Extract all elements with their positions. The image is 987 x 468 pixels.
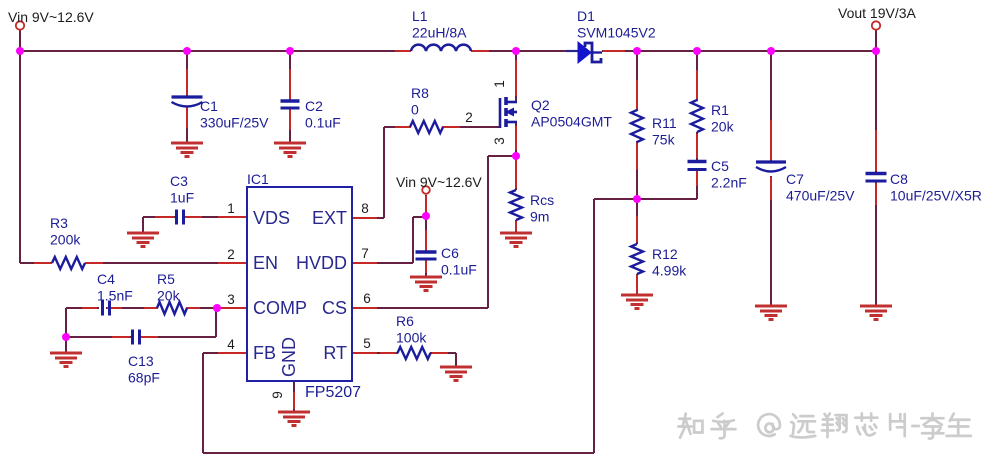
svg-text:VDS: VDS <box>253 208 290 228</box>
svg-text:20k: 20k <box>157 288 181 304</box>
svg-text:Vin 9V~12.6V: Vin 9V~12.6V <box>396 174 482 190</box>
svg-text:2: 2 <box>465 110 473 125</box>
svg-text:5: 5 <box>363 336 371 351</box>
svg-text:C1: C1 <box>200 98 218 114</box>
svg-text:CS: CS <box>322 298 347 318</box>
svg-text:2.2nF: 2.2nF <box>711 175 747 191</box>
svg-text:HVDD: HVDD <box>296 253 347 273</box>
svg-text:C3: C3 <box>170 173 188 189</box>
svg-text:L1: L1 <box>412 8 428 24</box>
svg-text:4.99k: 4.99k <box>652 263 687 279</box>
svg-text:20k: 20k <box>711 119 735 135</box>
svg-text:1: 1 <box>227 201 235 216</box>
svg-text:FP5207: FP5207 <box>305 384 361 401</box>
svg-text:R11: R11 <box>652 115 677 131</box>
svg-text:7: 7 <box>361 246 369 261</box>
svg-text:COMP: COMP <box>253 298 307 318</box>
svg-text:8: 8 <box>361 201 369 216</box>
svg-text:1uF: 1uF <box>170 190 194 206</box>
svg-text:R12: R12 <box>652 246 678 262</box>
svg-text:75k: 75k <box>652 132 676 148</box>
svg-text:C2: C2 <box>305 98 323 114</box>
svg-text:470uF/25V: 470uF/25V <box>786 188 855 204</box>
svg-text:EXT: EXT <box>312 208 347 228</box>
svg-text:Vout 19V/3A: Vout 19V/3A <box>838 5 917 21</box>
svg-text:R8: R8 <box>411 85 429 101</box>
svg-text:Rcs: Rcs <box>530 192 554 208</box>
svg-text:GND: GND <box>279 337 299 377</box>
svg-text:68pF: 68pF <box>128 370 160 386</box>
svg-text:C5: C5 <box>711 158 729 174</box>
svg-text:9m: 9m <box>530 209 549 225</box>
svg-text:2: 2 <box>227 247 235 262</box>
svg-text:1: 1 <box>492 80 507 88</box>
svg-text:0: 0 <box>411 102 419 118</box>
svg-text:Vin 9V~12.6V: Vin 9V~12.6V <box>8 9 94 25</box>
svg-text:0.1uF: 0.1uF <box>305 115 341 131</box>
svg-text:R6: R6 <box>396 313 414 329</box>
svg-text:9: 9 <box>270 391 285 399</box>
svg-text:200k: 200k <box>50 232 81 248</box>
svg-text:IC1: IC1 <box>247 171 269 187</box>
svg-text:C8: C8 <box>890 171 908 187</box>
svg-text:6: 6 <box>363 291 371 306</box>
svg-text:SVM1045V2: SVM1045V2 <box>577 25 656 41</box>
svg-text:FB: FB <box>253 343 276 363</box>
svg-text:R3: R3 <box>50 215 68 231</box>
svg-text:4: 4 <box>227 337 235 352</box>
svg-text:Q2: Q2 <box>531 97 550 113</box>
svg-text:C6: C6 <box>441 245 459 261</box>
svg-text:EN: EN <box>253 253 278 273</box>
svg-text:22uH/8A: 22uH/8A <box>412 25 467 41</box>
svg-text:R1: R1 <box>711 102 729 118</box>
svg-text:C13: C13 <box>128 353 154 369</box>
svg-text:3: 3 <box>492 137 507 145</box>
svg-text:AP0504GMT: AP0504GMT <box>531 114 612 130</box>
svg-text:10uF/25V/X5R: 10uF/25V/X5R <box>890 188 982 204</box>
svg-text:1.5nF: 1.5nF <box>97 288 133 304</box>
svg-text:100k: 100k <box>396 330 427 346</box>
svg-text:RT: RT <box>323 343 347 363</box>
svg-text:330uF/25V: 330uF/25V <box>200 115 269 131</box>
svg-text:0.1uF: 0.1uF <box>441 262 477 278</box>
svg-text:C4: C4 <box>97 271 115 287</box>
svg-text:C7: C7 <box>786 171 804 187</box>
svg-text:D1: D1 <box>577 8 595 24</box>
svg-text:R5: R5 <box>157 271 175 287</box>
svg-text:3: 3 <box>227 292 235 307</box>
